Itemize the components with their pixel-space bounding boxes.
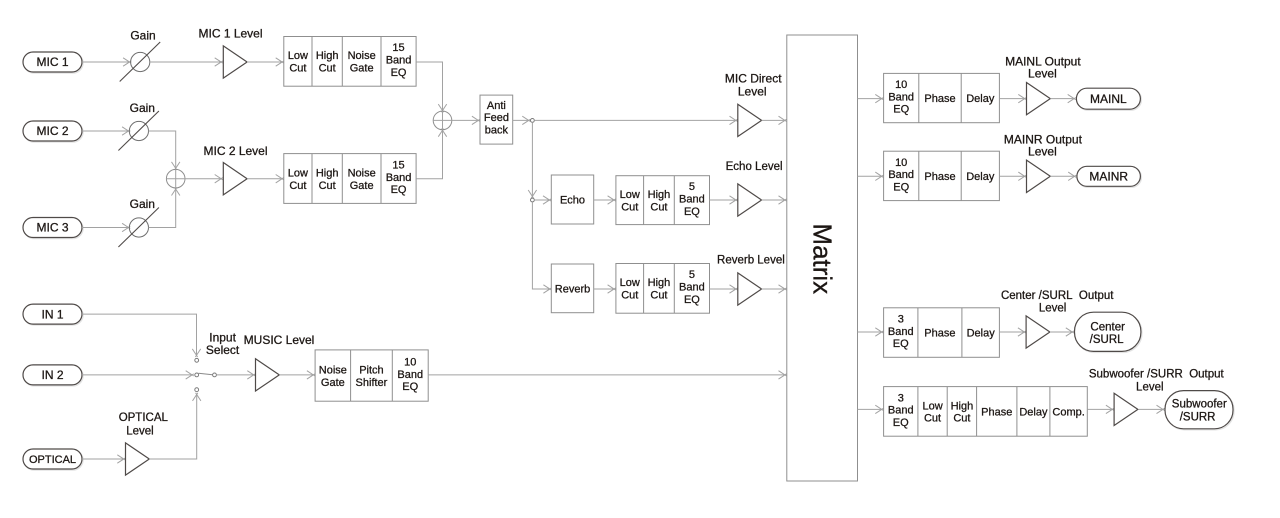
- label Gain (MIC3): [130, 197, 155, 211]
- svg-text:Delay: Delay: [966, 93, 995, 105]
- svg-text:Band: Band: [679, 193, 705, 205]
- svg-text:Cut: Cut: [289, 180, 306, 192]
- wire node B to Anti Feedback: [452, 116, 480, 124]
- input stadium MIC 1: [23, 52, 83, 73]
- selector common contact: [213, 373, 217, 377]
- svg-text:Cut: Cut: [289, 63, 306, 75]
- svg-text:Subwoofer: Subwoofer: [1172, 398, 1227, 410]
- selector contact IN2: [195, 373, 199, 377]
- wire Reverb Level to Matrix: [762, 285, 787, 293]
- input stadium OPTICAL: [23, 449, 83, 470]
- svg-text:EQ: EQ: [684, 294, 700, 306]
- svg-text:MUSIC Level: MUSIC Level: [244, 333, 315, 347]
- svg-text:Delay: Delay: [966, 171, 995, 183]
- wire amp to MAINR jack: [1050, 172, 1076, 180]
- svg-text:EQ: EQ: [893, 338, 909, 350]
- svg-text:/SURL: /SURL: [1090, 334, 1124, 346]
- svg-text:MIC Direct: MIC Direct: [725, 72, 782, 86]
- box group Reverb: Low Cut / High Cut / 5 Band EQ: [616, 264, 710, 314]
- output stadium MAINL: [1076, 88, 1141, 110]
- amp triangle MAINL Output Level: [1027, 82, 1051, 114]
- svg-text:Center: Center: [1090, 321, 1125, 333]
- svg-text:Delay: Delay: [1019, 406, 1048, 418]
- wire Subwoofer EQ to amp: [1087, 405, 1114, 413]
- label MIC Direct Level: [725, 72, 782, 99]
- wire reverb EQ to level amp: [710, 285, 738, 293]
- summing node A (MIC2+MIC3): [166, 169, 185, 188]
- svg-text:High: High: [316, 167, 339, 179]
- wire gain1 to level amp: [150, 58, 223, 66]
- wire Center EQ to amp: [999, 328, 1026, 336]
- svg-text:Level: Level: [1136, 382, 1164, 394]
- svg-text:Pitch: Pitch: [359, 364, 383, 376]
- svg-text:Cut: Cut: [924, 413, 941, 425]
- wire node D down to reverb branch: [532, 202, 551, 293]
- input stadium MIC 3: [23, 218, 83, 239]
- svg-text:EQ: EQ: [391, 184, 407, 196]
- svg-text:Level: Level: [1028, 66, 1057, 80]
- svg-text:15: 15: [392, 42, 404, 54]
- wire Echo to EQ group: [594, 196, 616, 204]
- svg-text:Band: Band: [679, 282, 705, 294]
- svg-text:Phase: Phase: [924, 328, 955, 340]
- wire Matrix to MAINR EQ: [858, 172, 884, 180]
- amp triangle MAINR Output Level: [1027, 160, 1051, 192]
- svg-text:Gate: Gate: [350, 180, 374, 192]
- box group Center: 3 Band EQ / Phase / Delay: [884, 308, 1000, 358]
- label MAINR Output Level: [1004, 132, 1083, 158]
- svg-text:Low: Low: [922, 400, 942, 412]
- svg-text:5: 5: [689, 181, 695, 193]
- selector lever: [199, 373, 213, 375]
- svg-text:10: 10: [895, 79, 907, 91]
- input stadium IN 1: [23, 304, 83, 325]
- svg-text:Cut: Cut: [621, 201, 638, 213]
- svg-text:Band: Band: [397, 369, 423, 381]
- svg-text:MIC 1 Level: MIC 1 Level: [198, 26, 262, 40]
- wire MUSIC amp to box group: [279, 371, 315, 379]
- svg-text:Band: Band: [888, 91, 914, 103]
- amp triangle Echo Level: [738, 184, 762, 216]
- svg-text:Noise: Noise: [348, 167, 376, 179]
- svg-text:Matrix: Matrix: [808, 223, 838, 294]
- svg-text:Phase: Phase: [924, 93, 955, 105]
- svg-text:Anti: Anti: [487, 100, 506, 112]
- box group Subwoofer: 3 Band EQ / Low Cut / High Cut / Phase / Delay / Comp.: [884, 387, 1088, 437]
- svg-text:High: High: [648, 189, 671, 201]
- wire node C to MIC Direct amp: [534, 116, 737, 124]
- label Center /SURL Output Level: [1001, 290, 1114, 315]
- svg-text:Gain: Gain: [130, 101, 155, 115]
- wire IN1 to selector: [82, 314, 201, 357]
- amp triangle MIC Direct Level: [738, 104, 762, 136]
- output stadium MAINR: [1077, 166, 1142, 187]
- wire node C down to echo tap: [528, 122, 536, 198]
- wire Matrix to MAINL EQ: [858, 94, 884, 102]
- amp triangle Center Output Level: [1026, 316, 1050, 348]
- wire OPTICAL amp to selector: [149, 393, 201, 459]
- svg-text:Band: Band: [888, 326, 914, 338]
- svg-text:Gate: Gate: [321, 377, 345, 389]
- svg-text:Comp.: Comp.: [1052, 406, 1084, 418]
- svg-text:Reverb Level: Reverb Level: [717, 254, 785, 266]
- label Echo Level: [726, 161, 783, 173]
- label Input Select: [206, 331, 240, 358]
- label Subwoofer /SURR Output Level: [1089, 369, 1225, 394]
- selector contact OPTICAL: [195, 388, 199, 392]
- wire amp1 to EQ group: [247, 58, 284, 66]
- amp triangle MIC 1 Level: [223, 46, 247, 78]
- wire MIC Direct to Matrix: [762, 116, 787, 124]
- box group MUSIC: Noise Gate / Pitch Shifter / 10 Band EQ: [315, 350, 428, 401]
- svg-text:Reverb: Reverb: [555, 283, 590, 295]
- svg-text:EQ: EQ: [391, 67, 407, 79]
- matrix block: [787, 35, 858, 481]
- wire gain2 to summing node A: [149, 131, 180, 170]
- label Gain (MIC2): [130, 101, 155, 115]
- svg-text:Low: Low: [288, 50, 308, 62]
- wire OPTICAL to amp: [82, 455, 125, 463]
- svg-text:MIC 2: MIC 2: [36, 124, 68, 138]
- svg-text:IN 1: IN 1: [41, 307, 63, 321]
- output stadium Subwoofer /SURR: [1165, 391, 1234, 430]
- svg-text:Center /SURL Output: Center /SURL Output: [1001, 290, 1114, 302]
- svg-text:EQ: EQ: [893, 417, 909, 429]
- svg-text:OPTICAL: OPTICAL: [29, 454, 76, 466]
- svg-text:Low: Low: [620, 277, 640, 289]
- gain pot MIC2: [118, 111, 158, 151]
- input stadium IN 2: [23, 365, 83, 386]
- svg-text:Feed: Feed: [484, 112, 509, 124]
- box Echo: [551, 175, 593, 224]
- svg-text:Level: Level: [1028, 144, 1057, 158]
- svg-text:Cut: Cut: [319, 63, 336, 75]
- wire Anti Feedback out: [513, 116, 531, 124]
- svg-text:Cut: Cut: [319, 180, 336, 192]
- box Anti Feedback: [480, 95, 513, 144]
- box group MIC1: Low Cut / High Cut / Noise Gate / 15 Band EQ: [284, 37, 416, 87]
- junction node D (echo tap): [531, 198, 535, 202]
- svg-text:Gain: Gain: [130, 28, 155, 42]
- svg-text:10: 10: [895, 157, 907, 169]
- svg-text:Band: Band: [888, 169, 914, 181]
- label MUSIC Level: [244, 333, 315, 347]
- wire echo EQ to level amp: [710, 196, 738, 204]
- svg-text:Subwoofer /SURR Output: Subwoofer /SURR Output: [1089, 369, 1225, 381]
- svg-text:Band: Band: [386, 172, 412, 184]
- svg-text:MIC 3: MIC 3: [36, 221, 68, 235]
- svg-text:3: 3: [898, 392, 904, 404]
- box Reverb: [551, 264, 593, 313]
- svg-text:Phase: Phase: [981, 406, 1012, 418]
- svg-text:15: 15: [392, 159, 404, 171]
- amp triangle MUSIC Level: [256, 359, 280, 391]
- junction node C: [531, 119, 535, 123]
- wire gain3 to summing node A: [149, 187, 180, 227]
- svg-text:Select: Select: [206, 343, 240, 357]
- wire amp2 to EQ group: [247, 175, 284, 183]
- wire Reverb to EQ group: [594, 285, 616, 293]
- svg-text:3: 3: [898, 313, 904, 325]
- svg-text:Noise: Noise: [319, 364, 347, 376]
- svg-text:Level: Level: [126, 426, 154, 438]
- wire node D to Echo: [534, 196, 551, 204]
- svg-text:5: 5: [689, 269, 695, 281]
- wire EQ1 out to summing node B: [416, 62, 447, 112]
- svg-text:High: High: [648, 277, 671, 289]
- svg-text:MIC 2 Level: MIC 2 Level: [203, 144, 267, 158]
- summing node B (mics): [433, 111, 452, 130]
- label MIC 1 Level: [198, 26, 262, 40]
- box group MAINL: 10 Band EQ / Phase / Delay: [884, 73, 1000, 122]
- label OPTICAL Level: [119, 412, 169, 438]
- svg-text:IN 2: IN 2: [41, 368, 63, 382]
- svg-text:Cut: Cut: [621, 290, 638, 302]
- svg-text:Band: Band: [386, 55, 412, 67]
- svg-text:Level: Level: [1039, 303, 1067, 315]
- wire amp to Center jack: [1050, 328, 1074, 336]
- svg-text:Noise: Noise: [348, 50, 376, 62]
- output stadium Center /SURL: [1075, 312, 1142, 352]
- svg-text:Low: Low: [620, 189, 640, 201]
- svg-text:Cut: Cut: [650, 290, 667, 302]
- amp triangle MIC 2 Level: [223, 163, 247, 195]
- box group MIC2: Low Cut / High Cut / Noise Gate / 15 Band EQ: [284, 154, 416, 204]
- svg-text:Echo Level: Echo Level: [726, 161, 783, 173]
- svg-text:Gain: Gain: [130, 197, 155, 211]
- svg-text:10: 10: [404, 356, 416, 368]
- gain pot MIC1: [120, 42, 161, 82]
- gain pot MIC3: [118, 208, 158, 248]
- wire Matrix to Center EQ: [858, 328, 884, 336]
- svg-text:Gate: Gate: [350, 63, 374, 75]
- svg-text:MIC 1: MIC 1: [36, 55, 68, 69]
- label MIC 2 Level: [203, 144, 267, 158]
- svg-text:High: High: [951, 400, 974, 412]
- label Gain (MIC1): [130, 28, 155, 42]
- wire MUSIC EQ to Matrix: [428, 371, 786, 379]
- svg-text:Shifter: Shifter: [356, 377, 388, 389]
- wire selector to MUSIC amp: [217, 371, 256, 379]
- box group Echo: Low Cut / High Cut / 5 Band EQ: [616, 176, 710, 225]
- svg-text:Phase: Phase: [924, 171, 955, 183]
- wire MIC1 to gain: [82, 58, 131, 66]
- svg-text:Level: Level: [738, 85, 767, 99]
- svg-text:back: back: [485, 125, 509, 137]
- wire MAINR EQ to amp: [999, 172, 1026, 180]
- svg-text:MAINR: MAINR: [1089, 170, 1128, 184]
- wire node A to level amp: [185, 175, 223, 183]
- wire MAINL EQ to amp: [999, 94, 1026, 102]
- wire Matrix to Subwoofer EQ: [858, 405, 884, 413]
- svg-text:Cut: Cut: [650, 201, 667, 213]
- wire amp to MAINL jack: [1050, 94, 1076, 102]
- svg-text:Delay: Delay: [967, 328, 996, 340]
- svg-text:MAINL: MAINL: [1090, 92, 1127, 106]
- svg-text:Cut: Cut: [953, 413, 970, 425]
- selector contact IN1: [195, 358, 199, 362]
- wire IN2 to selector: [82, 371, 194, 379]
- wire MIC3 to gain: [82, 223, 130, 231]
- svg-text:EQ: EQ: [893, 104, 909, 116]
- label MAINL Output Level: [1005, 55, 1081, 81]
- wire Echo Level to Matrix: [762, 196, 787, 204]
- svg-text:Low: Low: [288, 167, 308, 179]
- wire MIC2 to gain: [82, 127, 130, 135]
- svg-text:OPTICAL: OPTICAL: [119, 412, 169, 424]
- wire EQ2 out to summing node B: [416, 129, 447, 179]
- amp triangle Subwoofer Output Level: [1114, 393, 1138, 425]
- box group MAINR: 10 Band EQ / Phase / Delay: [884, 151, 1000, 200]
- svg-text:/SURR: /SURR: [1180, 412, 1216, 424]
- amp triangle Reverb Level: [738, 273, 762, 305]
- amp triangle OPTICAL Level: [126, 443, 150, 475]
- svg-text:EQ: EQ: [402, 381, 418, 393]
- input stadium MIC 2: [23, 121, 83, 142]
- svg-text:Band: Band: [888, 405, 914, 417]
- svg-text:High: High: [316, 50, 339, 62]
- wire amp to Subwoofer jack: [1139, 405, 1165, 413]
- label Reverb Level: [717, 254, 785, 266]
- svg-text:EQ: EQ: [893, 182, 909, 194]
- svg-text:EQ: EQ: [684, 206, 700, 218]
- svg-text:Echo: Echo: [560, 195, 585, 207]
